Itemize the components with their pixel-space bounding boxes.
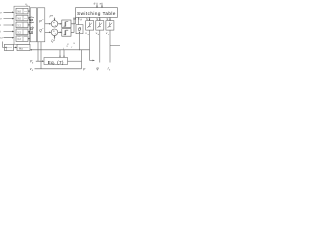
svg-text:Switching Table: Switching Table — [77, 11, 116, 16]
svg-text:3 2: 3 2 — [17, 37, 21, 41]
svg-text:3 2: 3 2 — [17, 23, 21, 27]
svg-text:3 2: 3 2 — [17, 10, 21, 14]
svg-text:3 2: 3 2 — [17, 30, 21, 34]
svg-text:S: S — [86, 17, 88, 21]
svg-text:S: S — [96, 17, 98, 21]
svg-text:θω: θω — [19, 47, 24, 51]
svg-text:θ: θ — [78, 27, 81, 33]
svg-text:Eq. (6): Eq. (6) — [29, 16, 35, 34]
svg-text:S: S — [106, 17, 108, 21]
svg-text:Eq. (7): Eq. (7) — [48, 60, 64, 65]
